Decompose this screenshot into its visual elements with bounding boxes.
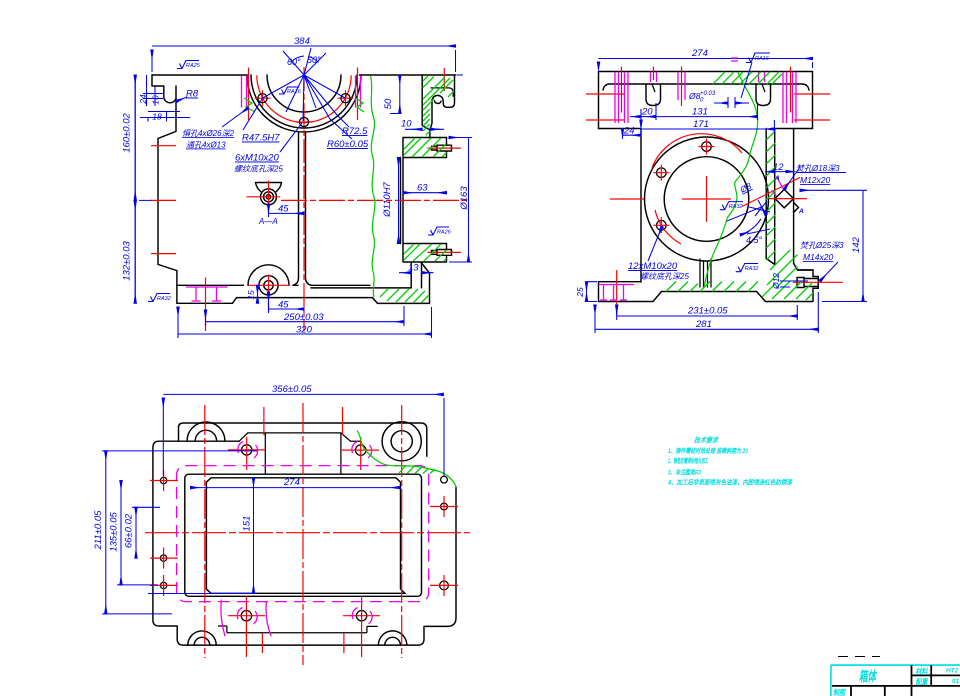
svg-text:24: 24: [623, 126, 635, 137]
dim 63: [403, 192, 447, 194]
rib below bore: [700, 259, 711, 288]
RA32 flag bottom-left: [148, 294, 170, 302]
svg-text:231±0.05: 231±0.05: [687, 306, 728, 317]
top-right boss circles: [382, 422, 421, 461]
O163 flange outline: [401, 138, 447, 288]
svg-text:A—A: A—A: [258, 217, 278, 226]
RA32 flag mid: [720, 202, 743, 210]
svg-text:RA16: RA16: [287, 89, 302, 95]
svg-text:RA16: RA16: [755, 56, 770, 62]
center rib walls: [293, 133, 311, 286]
svg-text:螺纹底孔深25: 螺纹底孔深25: [640, 272, 689, 281]
red crosses left holes: [150, 470, 178, 596]
red long verticals: [204, 405, 206, 658]
green hatch under rib: [666, 282, 698, 292]
svg-text:4.5°: 4.5°: [746, 235, 763, 245]
pocket fillet ticks: [652, 84, 765, 92]
svg-text:20: 20: [641, 107, 653, 118]
svg-text:制图: 制图: [833, 688, 846, 696]
red bottom-left T centerline: [205, 278, 207, 332]
svg-text:45: 45: [278, 300, 289, 311]
main bore arc R37: [267, 75, 341, 112]
dim 24 left: [623, 129, 642, 140]
green hatch triangle: [399, 467, 435, 474]
dim 151: [253, 478, 255, 594]
dim 10 right: [405, 128, 444, 130]
svg-text:RA25: RA25: [186, 63, 201, 69]
svg-text:24: 24: [138, 94, 148, 105]
red crosses right holes: [430, 496, 458, 596]
svg-text:135±0.05: 135±0.05: [109, 512, 120, 552]
dim 356: [163, 394, 444, 476]
bolt pocket right: [756, 84, 771, 106]
dim 131: [656, 103, 758, 120]
svg-text:151: 151: [242, 516, 253, 532]
magenta flange thread lines left group: [615, 72, 628, 123]
dim O12: [780, 281, 808, 287]
bolt hole circles on arc: [258, 94, 267, 103]
cavity bottom left: [177, 284, 244, 286]
svg-text:RA32: RA32: [157, 296, 171, 302]
interior split-face lines: [239, 433, 361, 474]
svg-text:18: 18: [152, 112, 162, 122]
red side hole ticks right: [794, 94, 830, 120]
svg-text:131: 131: [692, 107, 708, 118]
svg-text:焚孔Ø25深3: 焚孔Ø25深3: [800, 241, 844, 250]
dim 15: [257, 285, 259, 303]
red hole column stubs: [246, 437, 361, 657]
red bolt hole crosses: [653, 139, 714, 234]
dim 171: [641, 120, 774, 133]
M12 boss diamond: [775, 189, 799, 212]
svg-text:技术要求: 技术要求: [694, 436, 719, 445]
red bore center cross: [610, 176, 807, 222]
flange underside recess: [603, 84, 809, 90]
cavity rim rect: [185, 474, 422, 596]
top plate edge with bump: [179, 423, 427, 456]
red mid hole boss cross: [247, 181, 281, 214]
svg-text:211±0.05: 211±0.05: [93, 510, 104, 551]
svg-text:6xM10x20: 6xM10x20: [235, 153, 280, 164]
svg-text:箱体: 箱体: [859, 669, 878, 684]
dim 45 mid: [269, 204, 305, 217]
svg-text:281: 281: [695, 319, 712, 330]
red bolt circle arcs: [652, 134, 742, 168]
green hatch right foot: [700, 250, 813, 300]
svg-text:HT2: HT2: [946, 668, 959, 675]
left edge holes: [160, 477, 166, 483]
RA32 flag bottom: [736, 264, 758, 272]
bolt hole circles: [702, 142, 712, 152]
svg-text:Ø12: Ø12: [771, 273, 781, 290]
magenta C arcs top holes: [238, 442, 372, 459]
right edge holes: [441, 476, 448, 483]
svg-text:142: 142: [851, 236, 862, 253]
dim 160/132 left: [135, 75, 152, 303]
outer outline: [153, 441, 456, 645]
svg-text:4、加工后非表面喷灰色油漆，内腔喷涂红色防锈漆: 4、加工后非表面喷灰色油漆，内腔喷涂红色防锈漆: [667, 479, 793, 487]
green hatch flange bottom band: [404, 244, 447, 261]
dim 25 left: [586, 282, 588, 302]
top-left boss arcs: [187, 422, 225, 441]
magenta oil boss marks: [772, 177, 784, 197]
svg-text:1、铸件需经时效处理 拔模斜度为 20: 1、铸件需经时效处理 拔模斜度为 20: [668, 447, 748, 455]
svg-text:171: 171: [693, 119, 709, 130]
svg-text:+0.03: +0.03: [700, 91, 716, 97]
svg-text:60°: 60°: [287, 57, 301, 67]
body top face left segment: [152, 74, 247, 76]
bore boss outer arc R57: [247, 75, 361, 132]
RA16 flag in bore: [279, 87, 299, 94]
svg-text:63: 63: [417, 183, 428, 194]
red bolt circle arc R47: [257, 75, 351, 122]
svg-text:384: 384: [294, 36, 310, 47]
green hatch flange band right: [722, 72, 782, 84]
dim 274: [599, 59, 813, 69]
svg-text:M14x20: M14x20: [803, 252, 834, 262]
mid-left hole boss: [256, 183, 282, 192]
svg-text:R72.5: R72.5: [342, 126, 368, 137]
green zigzag left bore edge: [244, 98, 255, 112]
small dims 24 16 18: [140, 75, 190, 122]
dim 12 boss: [765, 171, 775, 173]
svg-text:12xM10x20: 12xM10x20: [628, 261, 678, 272]
dim 13: [399, 272, 434, 274]
magenta flange thread lines mid: [651, 72, 686, 100]
svg-text:50: 50: [383, 98, 394, 109]
svg-text:13: 13: [408, 263, 419, 274]
red foot centerlines: [617, 270, 843, 315]
svg-text:160±0.02: 160±0.02: [122, 113, 133, 153]
flange studs bottom: [432, 250, 452, 256]
red left wall ticks: [151, 146, 176, 254]
big bore circles: [645, 137, 769, 261]
dim 66: [135, 507, 137, 558]
magenta dashed hidden rect: [177, 466, 429, 602]
svg-text:50°: 50°: [307, 55, 321, 65]
svg-text:12: 12: [773, 162, 784, 173]
red crosses hole rows: [228, 450, 380, 616]
leader to dowel: [741, 63, 752, 99]
bottom-left bolt boss arcs: [248, 265, 289, 286]
svg-text:通孔4xØ13: 通孔4xØ13: [186, 141, 226, 150]
svg-text:RA32: RA32: [729, 204, 743, 210]
svg-text:15: 15: [246, 290, 256, 300]
svg-text:Ø110H7: Ø110H7: [382, 181, 393, 217]
dim 320: [178, 307, 432, 338]
svg-text:45: 45: [278, 204, 289, 215]
green break curve top-right: [357, 431, 456, 488]
svg-text:惧孔4xØ26深2: 惧孔4xØ26深2: [182, 129, 235, 138]
ear inner line: [431, 88, 454, 97]
svg-text:A: A: [798, 208, 804, 215]
label 12xM10x20: [648, 227, 662, 262]
svg-text:配重: 配重: [916, 678, 929, 687]
dim 50 right: [399, 75, 401, 114]
svg-text:16: 16: [151, 95, 161, 105]
dim 45 bottom: [269, 292, 305, 313]
foot top right: [798, 269, 814, 271]
svg-text:25: 25: [575, 287, 585, 298]
bottom boss arcs right: [378, 631, 406, 645]
svg-text:R8: R8: [186, 89, 199, 100]
flange studs top: [432, 145, 452, 151]
svg-text:Ø163: Ø163: [459, 186, 470, 211]
dim 281: [595, 292, 818, 333]
bottom boss arcs left: [188, 631, 216, 645]
red split-face hole centerlines: [249, 68, 358, 121]
right ear with notch: [430, 75, 455, 130]
green hatch flange top band: [404, 138, 447, 157]
svg-text:A: A: [774, 175, 780, 182]
green break line vertical wavy: [371, 76, 375, 297]
angle 60 50 lines: [283, 48, 326, 75]
dim 384: [152, 46, 456, 72]
green break wavy line: [704, 72, 758, 288]
red bolt hole crosses: [255, 90, 354, 122]
svg-text:356±0.05: 356±0.05: [272, 384, 312, 395]
magenta foot lines left: [599, 285, 635, 301]
4.5deg: [740, 219, 761, 235]
dim 20: [630, 103, 656, 120]
svg-text:螺纹底孔深25: 螺纹底孔深25: [234, 165, 283, 174]
svg-text:R47.5H7: R47.5H7: [242, 133, 280, 144]
svg-text:R60±0.05: R60±0.05: [327, 139, 369, 150]
green zigzag right bore edge: [356, 98, 364, 112]
red flange hole centerlines: [622, 67, 791, 113]
dim O110H7: [398, 158, 400, 244]
red flange stud lines: [428, 68, 462, 252]
RA16 flag top: [746, 53, 770, 63]
dim 250: [206, 306, 405, 326]
black table lines: [832, 665, 960, 696]
svg-text:10: 10: [401, 119, 412, 130]
svg-text:焚孔Ø18深3: 焚孔Ø18深3: [796, 164, 840, 173]
top flange outline: [599, 72, 819, 302]
M14 stud bottom right: [797, 278, 818, 288]
boss holes top row: [242, 445, 252, 455]
red vertical centerline main: [303, 67, 305, 331]
radial leader fan: [243, 75, 352, 139]
red 45deg oil hole line: [742, 178, 800, 207]
clipped text marks above block: [838, 656, 880, 658]
svg-text:RA26: RA26: [437, 230, 452, 236]
svg-text:Ø8: Ø8: [688, 91, 701, 101]
green hatch top-left small: [713, 72, 725, 84]
body top face right segment: [360, 74, 456, 76]
dim 274: [191, 487, 401, 489]
magenta C arcs bottom holes: [237, 608, 372, 625]
red horizontal centerline O110: [281, 199, 467, 201]
cavity bottom mid-right: [293, 285, 411, 288]
svg-text:材料: 材料: [916, 667, 929, 676]
green hatch bottom band: [380, 288, 429, 303]
svg-text:132±0.03: 132±0.03: [122, 241, 133, 281]
svg-text:01: 01: [952, 678, 960, 685]
green hatch ear region: [423, 76, 455, 135]
magenta bottom T marks: [186, 287, 228, 301]
dim 142: [800, 190, 867, 301]
magenta draft curves bottom-left hole: [221, 600, 271, 637]
label M14x20: [820, 262, 838, 281]
svg-text:3、未注圆角R3: 3、未注圆角R3: [668, 469, 701, 477]
green hatch right wall band: [766, 131, 775, 260]
magenta split-face thread lines left: [242, 76, 247, 108]
leader counterbore: [222, 108, 248, 127]
label 6xM10x20 leader: [280, 123, 302, 152]
right wall verticals (10 wall): [422, 75, 430, 138]
bottom mid recess line: [218, 626, 378, 633]
boss holes bottom row: [241, 611, 251, 621]
label M12x20: [785, 167, 801, 189]
svg-text:274: 274: [691, 48, 708, 59]
bore boss inner arc R53: [251, 75, 357, 128]
svg-text:274: 274: [283, 477, 300, 488]
svg-text:RA32: RA32: [745, 266, 759, 272]
RA26 flag right: [428, 227, 449, 235]
bolt pocket left: [646, 84, 661, 106]
cyan border: [831, 665, 960, 696]
left outer profile: [152, 75, 430, 303]
dim 231: [617, 305, 798, 320]
dim 135: [120, 481, 122, 585]
red main horizontal centerline: [145, 532, 470, 534]
cavity floor rect chamfered: [206, 478, 404, 594]
magenta flange thread lines right group: [759, 72, 797, 123]
svg-text:M12x20: M12x20: [800, 175, 831, 185]
svg-text:2、铸造后需清砂抛丸加工: 2、铸造后需清砂抛丸加工: [667, 457, 708, 465]
magenta split-face thread lines right: [356, 76, 361, 108]
red side hole ticks left: [586, 94, 625, 120]
svg-text:250±0.03: 250±0.03: [283, 312, 324, 323]
dim O163: [449, 138, 472, 263]
svg-text:66±0.02: 66±0.02: [124, 513, 135, 548]
RA25 flag top-left: [177, 61, 199, 69]
svg-text:320: 320: [296, 325, 313, 336]
dim 211: [105, 451, 107, 614]
red bottom boss cross: [249, 275, 291, 312]
